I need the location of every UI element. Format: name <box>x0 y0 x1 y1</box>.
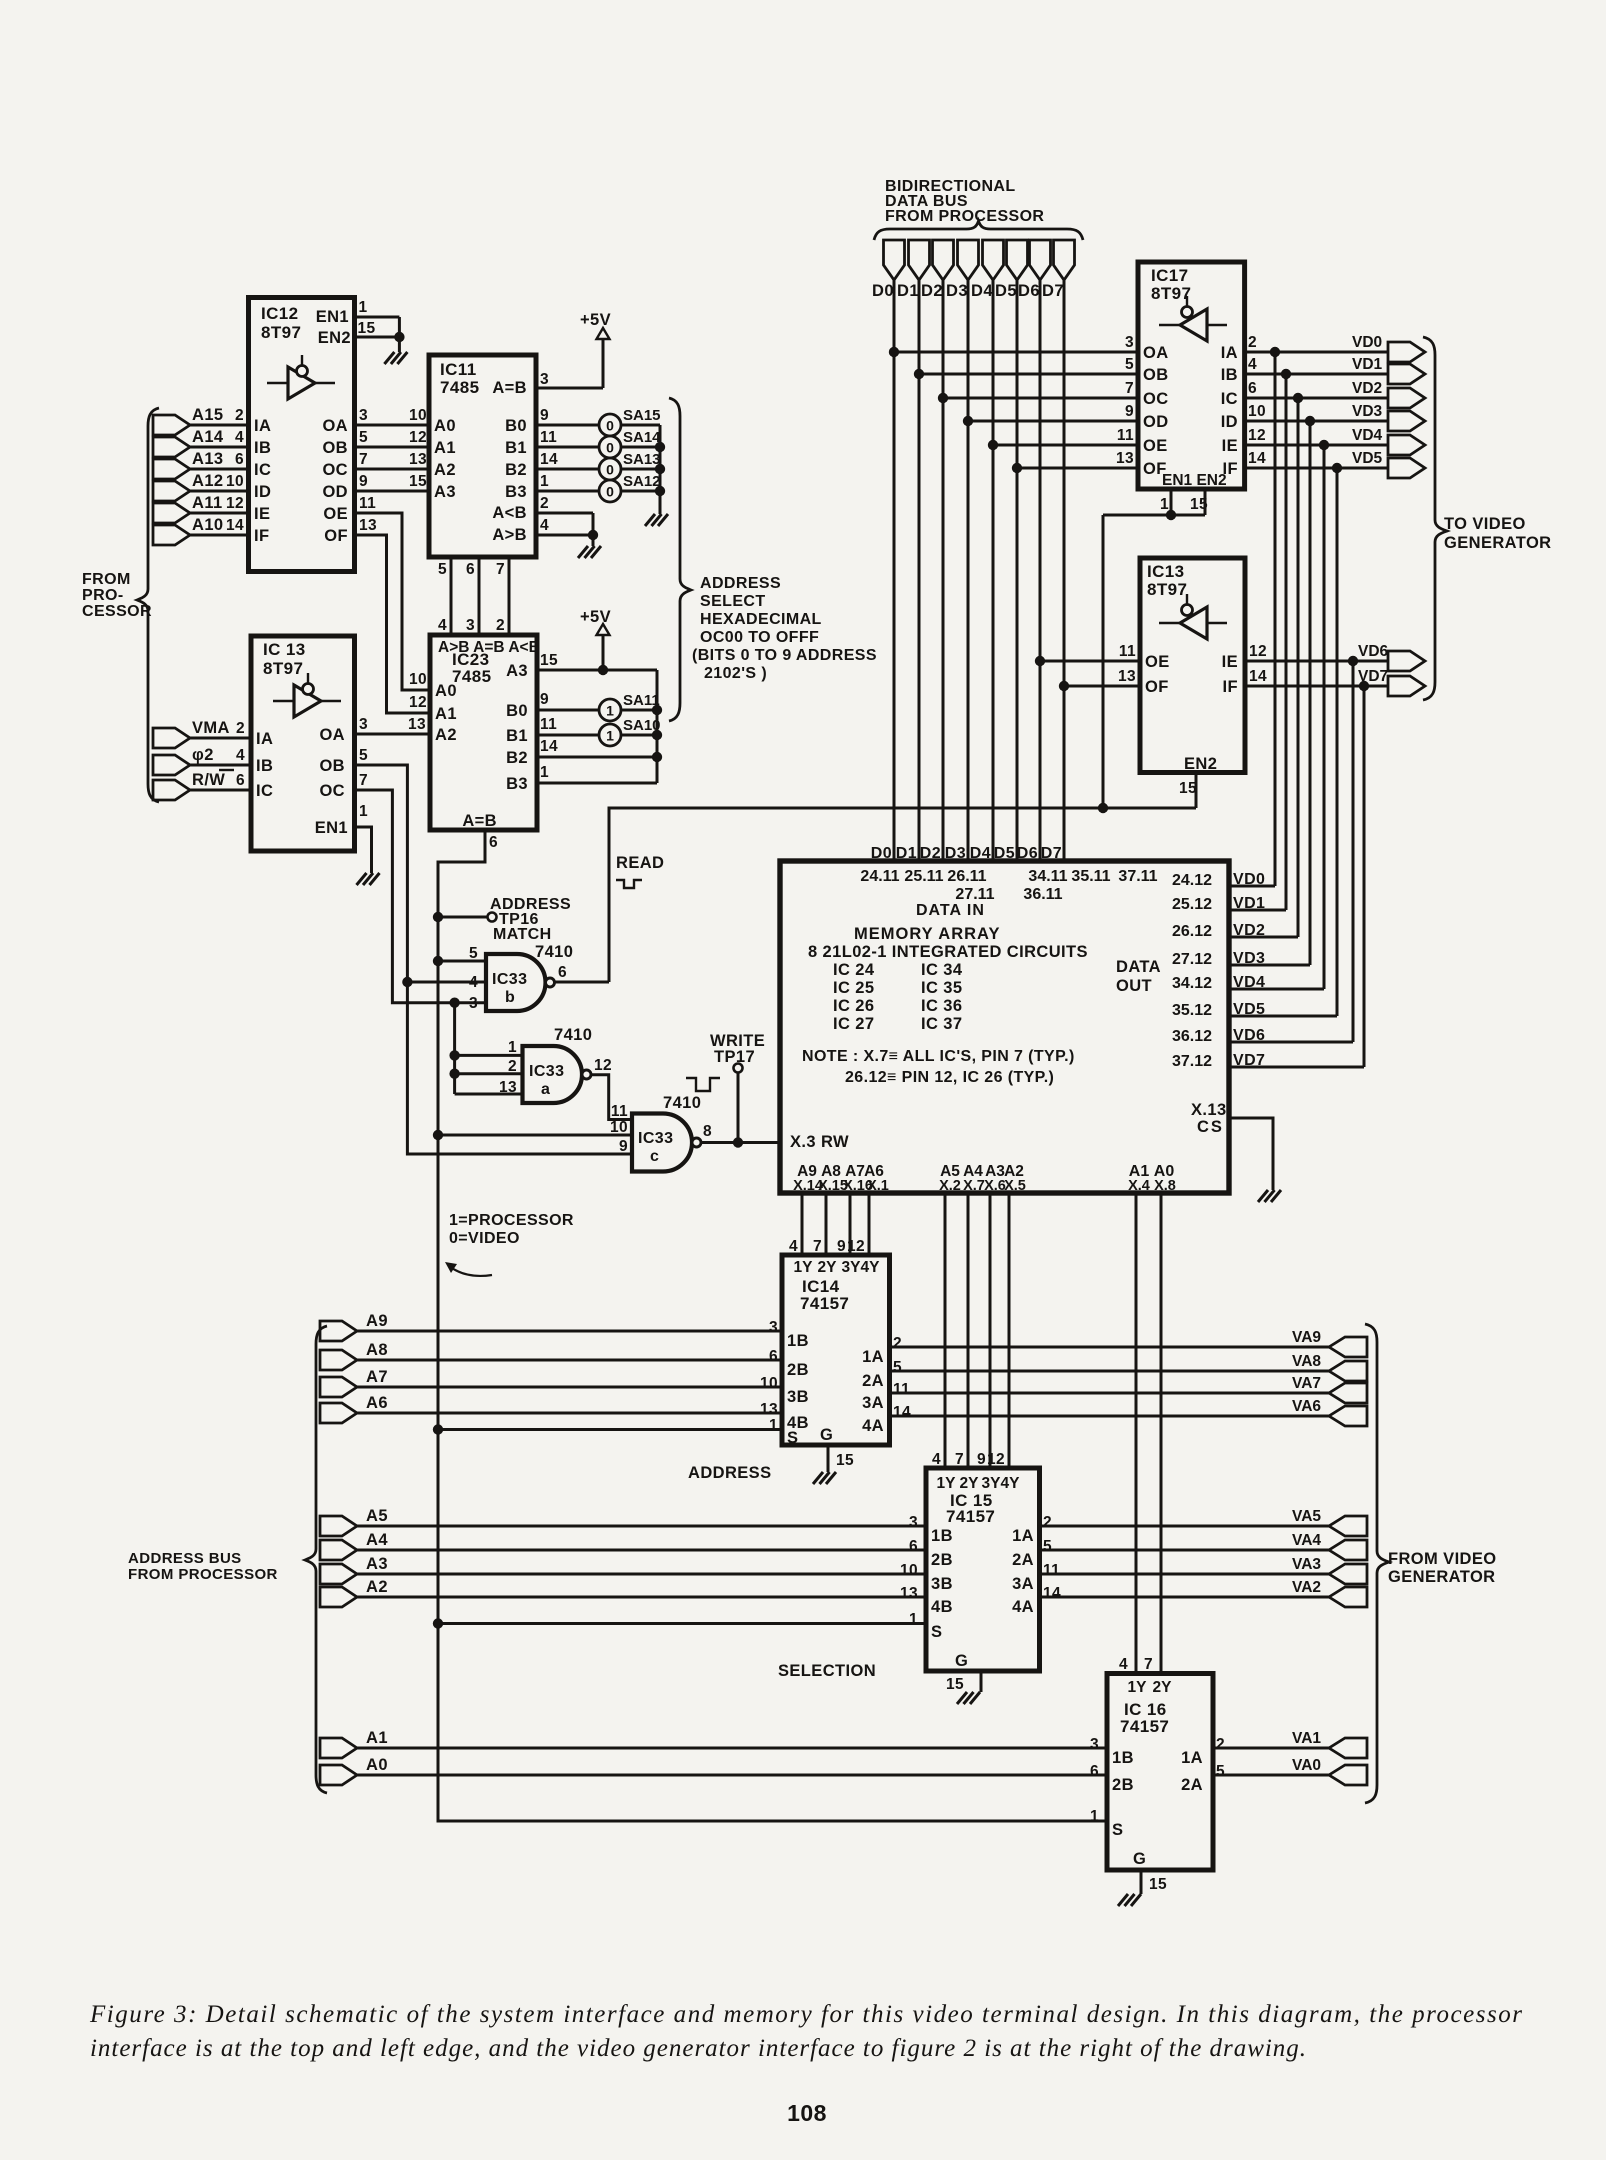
svg-text:1A: 1A <box>1012 1527 1034 1545</box>
svg-text:IC 13: IC 13 <box>263 640 306 659</box>
svg-text:SA15: SA15 <box>623 407 661 424</box>
svg-text:9: 9 <box>359 473 368 490</box>
svg-text:OA: OA <box>322 417 348 435</box>
svg-text:4: 4 <box>932 1451 941 1468</box>
svg-text:13: 13 <box>1118 668 1136 685</box>
svg-text:A1: A1 <box>435 705 457 723</box>
svg-text:A>B: A>B <box>492 526 527 544</box>
svg-text:14: 14 <box>226 517 244 534</box>
svg-text:1Y: 1Y <box>1128 1679 1148 1696</box>
svg-text:A11: A11 <box>192 494 223 512</box>
svg-text:VD4: VD4 <box>1352 427 1383 444</box>
svg-text:3: 3 <box>1125 334 1134 351</box>
svg-text:φ2: φ2 <box>192 746 214 764</box>
svg-text:4: 4 <box>236 747 245 764</box>
svg-text:9: 9 <box>837 1238 846 1255</box>
svg-text:B0: B0 <box>506 702 528 720</box>
svg-text:SA14: SA14 <box>623 429 661 446</box>
svg-text:12: 12 <box>847 1238 865 1255</box>
svg-text:10: 10 <box>900 1562 918 1579</box>
svg-text:3B: 3B <box>931 1575 953 1593</box>
svg-text:11: 11 <box>540 429 557 446</box>
svg-text:X.7: X.7 <box>963 1178 985 1194</box>
svg-text:3Y: 3Y <box>842 1259 862 1276</box>
svg-text:OC00 TO OFFF: OC00 TO OFFF <box>700 629 819 646</box>
svg-text:15: 15 <box>1149 1876 1167 1893</box>
svg-text:EN1: EN1 <box>315 819 348 837</box>
svg-text:4: 4 <box>235 429 244 446</box>
svg-text:8 21L02-1 INTEGRATED CIRCUITS: 8 21L02-1 INTEGRATED CIRCUITS <box>808 943 1088 961</box>
svg-text:A4: A4 <box>366 1531 388 1549</box>
svg-text:8T97: 8T97 <box>1151 284 1191 303</box>
svg-text:2: 2 <box>508 1058 517 1075</box>
svg-text:SA12: SA12 <box>623 473 661 490</box>
svg-text:SELECTION: SELECTION <box>778 1662 876 1680</box>
svg-text:34.12: 34.12 <box>1172 975 1212 992</box>
svg-text:A10: A10 <box>192 516 223 534</box>
svg-text:IC17: IC17 <box>1151 266 1189 285</box>
svg-text:15: 15 <box>358 320 376 337</box>
svg-text:NOTE : X.7≡ ALL IC'S, PIN 7 (T: NOTE : X.7≡ ALL IC'S, PIN 7 (TYP.) <box>802 1048 1075 1065</box>
svg-text:A2: A2 <box>366 1578 388 1596</box>
svg-text:D4: D4 <box>971 282 993 300</box>
svg-text:OC: OC <box>322 461 348 479</box>
svg-text:VA0: VA0 <box>1292 1757 1321 1774</box>
svg-text:X.3 RW: X.3 RW <box>790 1133 849 1151</box>
svg-text:VD0: VD0 <box>1352 334 1382 351</box>
svg-text:B2: B2 <box>505 461 527 479</box>
svg-text:25.11: 25.11 <box>904 868 943 885</box>
svg-text:A=B: A=B <box>462 812 497 830</box>
svg-text:1: 1 <box>359 803 368 820</box>
svg-text:37.12: 37.12 <box>1172 1053 1212 1070</box>
svg-text:2Y: 2Y <box>818 1259 838 1276</box>
svg-text:1: 1 <box>540 764 549 781</box>
svg-text:IC: IC <box>256 782 273 800</box>
svg-text:6: 6 <box>1090 1763 1099 1780</box>
svg-text:2: 2 <box>540 495 549 512</box>
svg-text:A12: A12 <box>192 472 223 490</box>
svg-text:B1: B1 <box>506 727 528 745</box>
svg-text:A3: A3 <box>506 662 528 680</box>
svg-text:D0: D0 <box>872 282 894 300</box>
svg-text:4B: 4B <box>931 1598 953 1616</box>
svg-text:CS: CS <box>1197 1118 1224 1136</box>
svg-text:A14: A14 <box>192 428 224 446</box>
svg-text:7: 7 <box>813 1238 822 1255</box>
svg-text:3A: 3A <box>1012 1575 1034 1593</box>
svg-text:A3: A3 <box>366 1555 388 1573</box>
svg-text:OC: OC <box>1143 390 1169 408</box>
svg-text:VD2: VD2 <box>1352 380 1382 397</box>
svg-text:OE: OE <box>323 505 348 523</box>
svg-text:13: 13 <box>1116 450 1134 467</box>
svg-text:13: 13 <box>760 1401 778 1418</box>
svg-text:1: 1 <box>769 1417 778 1434</box>
svg-text:10: 10 <box>1248 403 1266 420</box>
svg-text:OE: OE <box>1143 437 1168 455</box>
svg-text:IC33: IC33 <box>638 1130 673 1147</box>
svg-text:B1: B1 <box>505 439 527 457</box>
svg-text:5: 5 <box>1125 356 1134 373</box>
svg-text:IC 27: IC 27 <box>833 1015 874 1033</box>
svg-text:26.12≡ PIN 12, IC 26 (TYP.): 26.12≡ PIN 12, IC 26 (TYP.) <box>845 1069 1054 1086</box>
svg-text:X.2: X.2 <box>939 1178 961 1194</box>
svg-text:3: 3 <box>769 1319 778 1336</box>
svg-text:+5V: +5V <box>580 608 611 626</box>
svg-text:11: 11 <box>1043 1562 1060 1579</box>
svg-text:24.12: 24.12 <box>1172 872 1212 889</box>
svg-text:3: 3 <box>540 371 549 388</box>
svg-text:8T97: 8T97 <box>1147 580 1187 599</box>
svg-text:2B: 2B <box>1112 1776 1134 1794</box>
svg-text:DATA IN: DATA IN <box>916 902 985 919</box>
svg-text:27.12: 27.12 <box>1172 951 1212 968</box>
svg-text:X.4: X.4 <box>1128 1178 1150 1194</box>
svg-text:14: 14 <box>540 451 558 468</box>
svg-text:MATCH: MATCH <box>493 926 552 943</box>
svg-text:13: 13 <box>409 451 427 468</box>
svg-text:IA: IA <box>1221 344 1238 362</box>
svg-text:B3: B3 <box>505 483 527 501</box>
svg-text:12: 12 <box>1249 643 1267 660</box>
svg-text:D0: D0 <box>871 845 892 862</box>
svg-text:9: 9 <box>540 691 549 708</box>
svg-text:11: 11 <box>1119 643 1136 660</box>
svg-text:15: 15 <box>1190 496 1208 513</box>
svg-text:3: 3 <box>359 407 368 424</box>
svg-text:VD6: VD6 <box>1358 643 1389 660</box>
svg-text:2A: 2A <box>862 1372 884 1390</box>
svg-text:2: 2 <box>236 720 245 737</box>
svg-text:IC 36: IC 36 <box>921 997 962 1015</box>
svg-text:6: 6 <box>769 1348 778 1365</box>
svg-text:IF: IF <box>254 527 269 545</box>
svg-text:6: 6 <box>466 561 475 578</box>
svg-text:OD: OD <box>322 483 348 501</box>
svg-text:IE: IE <box>1222 437 1238 455</box>
svg-text:OD: OD <box>1143 413 1169 431</box>
svg-text:VA9: VA9 <box>1292 1329 1321 1346</box>
svg-text:OC: OC <box>319 782 345 800</box>
svg-text:ID: ID <box>254 483 271 501</box>
svg-text:IC13: IC13 <box>1147 562 1185 581</box>
svg-text:OF: OF <box>1145 678 1169 696</box>
svg-text:26.12: 26.12 <box>1172 923 1212 940</box>
svg-text:1Y: 1Y <box>794 1259 814 1276</box>
svg-text:6: 6 <box>1248 380 1257 397</box>
svg-text:VA5: VA5 <box>1292 1508 1321 1525</box>
svg-text:X.5: X.5 <box>1004 1178 1026 1194</box>
svg-text:12: 12 <box>1248 427 1266 444</box>
svg-text:3A: 3A <box>862 1394 884 1412</box>
svg-text:X.6: X.6 <box>984 1178 1006 1194</box>
svg-text:D3: D3 <box>946 282 968 300</box>
svg-text:7410: 7410 <box>535 943 573 961</box>
svg-text:3: 3 <box>1090 1736 1099 1753</box>
svg-text:25.12: 25.12 <box>1172 896 1212 913</box>
svg-text:A1: A1 <box>366 1729 388 1747</box>
svg-text:0: 0 <box>606 484 614 500</box>
svg-text:IC: IC <box>1221 390 1238 408</box>
svg-text:2: 2 <box>893 1335 902 1352</box>
svg-text:IA: IA <box>254 417 271 435</box>
svg-text:GENERATOR: GENERATOR <box>1444 534 1552 552</box>
svg-text:10: 10 <box>760 1375 778 1392</box>
svg-text:1A: 1A <box>862 1348 884 1366</box>
svg-text:X.1: X.1 <box>867 1178 889 1194</box>
svg-text:6: 6 <box>235 451 244 468</box>
svg-text:S: S <box>1112 1821 1123 1839</box>
svg-text:10: 10 <box>226 473 244 490</box>
svg-text:A<B: A<B <box>492 504 527 522</box>
svg-text:HEXADECIMAL: HEXADECIMAL <box>700 611 822 628</box>
svg-text:15: 15 <box>946 1676 964 1693</box>
svg-text:EN2: EN2 <box>1184 755 1217 773</box>
svg-text:2B: 2B <box>931 1551 953 1569</box>
svg-text:13: 13 <box>900 1585 918 1602</box>
svg-text:IC33: IC33 <box>492 971 527 988</box>
svg-text:Figure 3: Detail schematic: Figure 3: Detail schematic of the system… <box>89 2001 1522 2028</box>
svg-text:1B: 1B <box>1112 1749 1134 1767</box>
svg-text:A13: A13 <box>192 450 223 468</box>
svg-text:12: 12 <box>409 694 427 711</box>
svg-text:VA8: VA8 <box>1292 1353 1321 1370</box>
svg-text:IC: IC <box>254 461 271 479</box>
svg-text:EN1: EN1 <box>316 308 349 326</box>
svg-text:A2: A2 <box>435 726 457 744</box>
svg-text:0: 0 <box>606 440 614 456</box>
svg-text:IC 25: IC 25 <box>833 979 874 997</box>
svg-text:7: 7 <box>1125 380 1134 397</box>
svg-text:D2: D2 <box>920 845 941 862</box>
svg-text:FROM VIDEO: FROM VIDEO <box>1388 1550 1497 1568</box>
svg-text:3B: 3B <box>787 1388 809 1406</box>
svg-text:1: 1 <box>540 473 549 490</box>
svg-text:12: 12 <box>987 1451 1005 1468</box>
svg-text:IC 24: IC 24 <box>833 961 875 979</box>
svg-text:OUT: OUT <box>1116 977 1152 995</box>
svg-text:7: 7 <box>496 561 505 578</box>
svg-text:ID: ID <box>1221 413 1238 431</box>
svg-text:TP17: TP17 <box>714 1048 755 1066</box>
svg-text:14: 14 <box>540 738 558 755</box>
svg-text:36.11: 36.11 <box>1023 886 1062 903</box>
svg-text:IC 26: IC 26 <box>833 997 874 1015</box>
svg-text:a: a <box>541 1081 550 1098</box>
svg-text:VA6: VA6 <box>1292 1398 1321 1415</box>
svg-text:5: 5 <box>359 747 368 764</box>
svg-text:7: 7 <box>1144 1656 1153 1673</box>
svg-text:OB: OB <box>322 439 348 457</box>
svg-text:D2: D2 <box>921 282 943 300</box>
svg-text:1B: 1B <box>787 1332 809 1350</box>
svg-text:11: 11 <box>611 1103 628 1120</box>
svg-text:TO VIDEO: TO VIDEO <box>1444 515 1526 533</box>
svg-text:14: 14 <box>1248 450 1266 467</box>
svg-text:8T97: 8T97 <box>263 659 303 678</box>
svg-text:VA2: VA2 <box>1292 1579 1321 1596</box>
svg-text:2: 2 <box>235 407 244 424</box>
svg-text:10: 10 <box>610 1119 628 1136</box>
svg-text:IA: IA <box>256 730 273 748</box>
svg-text:1: 1 <box>606 728 614 744</box>
svg-text:interface is at the top and le: interface is at the top and left edge, a… <box>90 2035 1306 2062</box>
svg-text:D1: D1 <box>897 282 919 300</box>
svg-text:5: 5 <box>893 1359 902 1376</box>
svg-text:IC33: IC33 <box>529 1063 564 1080</box>
svg-text:1Y: 1Y <box>937 1475 957 1492</box>
svg-text:6: 6 <box>489 834 498 851</box>
svg-text:74157: 74157 <box>946 1507 995 1526</box>
svg-text:A3: A3 <box>434 483 456 501</box>
svg-text:IB: IB <box>256 757 273 775</box>
svg-text:2B: 2B <box>787 1361 809 1379</box>
svg-text:2A: 2A <box>1012 1551 1034 1569</box>
svg-text:IE: IE <box>1222 653 1238 671</box>
svg-text:4: 4 <box>1248 356 1257 373</box>
svg-text:4Y: 4Y <box>1001 1475 1021 1492</box>
svg-text:5: 5 <box>359 429 368 446</box>
svg-text:VD5: VD5 <box>1352 450 1383 467</box>
svg-text:IC 37: IC 37 <box>921 1015 962 1033</box>
svg-text:4A: 4A <box>1012 1598 1034 1616</box>
svg-text:1: 1 <box>508 1039 517 1056</box>
svg-text:VA3: VA3 <box>1292 1556 1321 1573</box>
svg-text:4: 4 <box>438 617 447 634</box>
svg-text:14: 14 <box>1249 668 1267 685</box>
svg-text:7: 7 <box>955 1451 964 1468</box>
svg-text:EN1 EN2: EN1 EN2 <box>1162 472 1227 489</box>
svg-text:FROM: FROM <box>82 571 131 588</box>
svg-text:FROM PROCESSOR: FROM PROCESSOR <box>128 1566 278 1583</box>
svg-text:1: 1 <box>1160 496 1169 513</box>
svg-text:1=PROCESSOR: 1=PROCESSOR <box>449 1212 574 1229</box>
svg-text:EN2: EN2 <box>318 329 351 347</box>
svg-text:5: 5 <box>469 945 478 962</box>
svg-text:1: 1 <box>1090 1808 1099 1825</box>
svg-text:G: G <box>820 1426 833 1444</box>
svg-text:1: 1 <box>606 703 614 719</box>
svg-text:108: 108 <box>787 2100 827 2126</box>
svg-text:D6: D6 <box>1017 845 1038 862</box>
svg-text:1A: 1A <box>1181 1749 1203 1767</box>
svg-text:5: 5 <box>1043 1538 1052 1555</box>
svg-text:15: 15 <box>836 1452 854 1469</box>
svg-text:34.11: 34.11 <box>1028 868 1067 885</box>
svg-text:GENERATOR: GENERATOR <box>1388 1568 1496 1586</box>
svg-text:c: c <box>650 1148 659 1165</box>
svg-text:IC12: IC12 <box>261 304 299 323</box>
svg-text:A6: A6 <box>366 1394 388 1412</box>
svg-text:6: 6 <box>558 964 567 981</box>
svg-text:7485: 7485 <box>440 378 479 397</box>
svg-text:IE: IE <box>254 505 270 523</box>
svg-text:2: 2 <box>1043 1514 1052 1531</box>
svg-text:OB: OB <box>1143 366 1169 384</box>
svg-text:A=B: A=B <box>492 379 527 397</box>
svg-text:12: 12 <box>409 429 427 446</box>
svg-text:15: 15 <box>540 652 558 669</box>
svg-text:D6: D6 <box>1018 282 1040 300</box>
svg-text:13: 13 <box>408 716 426 733</box>
svg-text:A0: A0 <box>366 1756 388 1774</box>
svg-text:A9: A9 <box>366 1312 388 1330</box>
svg-text:2A: 2A <box>1181 1776 1203 1794</box>
svg-text:3: 3 <box>909 1514 918 1531</box>
svg-text:A5: A5 <box>366 1507 388 1525</box>
svg-text:15: 15 <box>409 473 427 490</box>
svg-text:9: 9 <box>1125 403 1134 420</box>
svg-text:ADDRESS BUS: ADDRESS BUS <box>128 1550 242 1567</box>
svg-text:b: b <box>505 989 515 1006</box>
svg-text:9: 9 <box>977 1451 986 1468</box>
svg-text:X.8: X.8 <box>1154 1178 1176 1194</box>
svg-text:S: S <box>931 1623 942 1641</box>
svg-text:7: 7 <box>359 451 368 468</box>
svg-text:B3: B3 <box>506 775 528 793</box>
svg-text:IB: IB <box>254 439 271 457</box>
svg-text:13: 13 <box>359 517 377 534</box>
svg-text:OF: OF <box>324 527 348 545</box>
svg-text:G: G <box>1133 1850 1146 1868</box>
svg-text:2102'S ): 2102'S ) <box>704 665 767 682</box>
svg-text:1: 1 <box>909 1611 918 1628</box>
svg-text:4A: 4A <box>862 1417 884 1435</box>
svg-text:0=VIDEO: 0=VIDEO <box>449 1230 520 1247</box>
svg-text:IC 34: IC 34 <box>921 961 963 979</box>
svg-text:IB: IB <box>1221 366 1238 384</box>
svg-text:7485: 7485 <box>452 667 491 686</box>
svg-text:5: 5 <box>1216 1763 1225 1780</box>
svg-text:4: 4 <box>789 1238 798 1255</box>
svg-text:FROM PROCESSOR: FROM PROCESSOR <box>885 208 1044 225</box>
svg-text:MEMORY ARRAY: MEMORY ARRAY <box>854 925 1000 943</box>
svg-text:VD1: VD1 <box>1352 356 1383 373</box>
svg-text:74157: 74157 <box>1120 1717 1169 1736</box>
svg-text:VD3: VD3 <box>1352 403 1383 420</box>
svg-text:14: 14 <box>893 1404 911 1421</box>
svg-text:IC11: IC11 <box>440 360 477 379</box>
svg-text:D3: D3 <box>945 845 966 862</box>
svg-text:A7: A7 <box>366 1368 388 1386</box>
svg-text:VMA: VMA <box>192 719 230 737</box>
svg-text:VA7: VA7 <box>1292 1375 1321 1392</box>
svg-text:DATA: DATA <box>1116 958 1161 976</box>
svg-text:37.11: 37.11 <box>1118 868 1157 885</box>
svg-text:36.12: 36.12 <box>1172 1028 1212 1045</box>
svg-text:6: 6 <box>909 1538 918 1555</box>
svg-text:G: G <box>955 1652 968 1670</box>
svg-text:ADDRESS: ADDRESS <box>700 575 781 592</box>
svg-text:74157: 74157 <box>800 1294 849 1313</box>
svg-text:7410: 7410 <box>663 1094 701 1112</box>
svg-text:27.11: 27.11 <box>955 886 994 903</box>
svg-text:A8: A8 <box>366 1341 388 1359</box>
svg-text:READ: READ <box>616 854 664 872</box>
svg-text:11: 11 <box>1117 427 1134 444</box>
svg-text:A1: A1 <box>434 439 456 457</box>
svg-text:D7: D7 <box>1042 282 1064 300</box>
svg-text:+5V: +5V <box>580 311 611 329</box>
svg-text:2: 2 <box>496 617 505 634</box>
svg-text:S: S <box>787 1429 798 1447</box>
svg-text:5: 5 <box>438 561 447 578</box>
svg-text:(BITS 0 TO 9 ADDRESS: (BITS 0 TO 9 ADDRESS <box>692 647 877 664</box>
svg-text:A0: A0 <box>435 682 457 700</box>
svg-text:7: 7 <box>359 772 368 789</box>
svg-text:PRO-: PRO- <box>82 587 124 604</box>
